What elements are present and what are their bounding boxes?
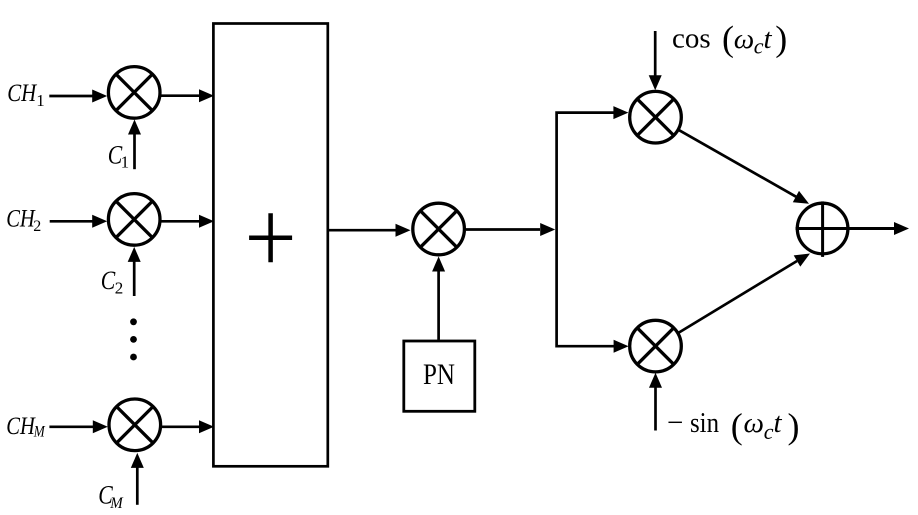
svg-text:2: 2 xyxy=(115,279,124,298)
svg-text:cos: cos xyxy=(672,23,711,55)
svg-text:1: 1 xyxy=(121,152,130,171)
svg-text:2: 2 xyxy=(33,218,41,235)
svg-text:CH: CH xyxy=(7,78,37,107)
svg-text:M: M xyxy=(33,424,46,441)
svg-text:t: t xyxy=(774,407,783,439)
svg-text:C: C xyxy=(101,265,116,295)
svg-text:c: c xyxy=(754,34,764,59)
svg-text:c: c xyxy=(764,419,774,444)
svg-text:1: 1 xyxy=(36,91,45,110)
svg-text:sin: sin xyxy=(690,407,719,439)
svg-text:t: t xyxy=(764,23,773,55)
svg-text:ω: ω xyxy=(734,23,754,55)
svg-text:M: M xyxy=(109,495,124,512)
svg-text:CH: CH xyxy=(6,204,36,233)
svg-text:−: − xyxy=(667,407,683,439)
svg-text:): ) xyxy=(775,19,787,59)
svg-text:ω: ω xyxy=(744,407,764,439)
svg-text:CH: CH xyxy=(6,411,36,440)
svg-text:(: ( xyxy=(722,19,734,59)
svg-text:): ) xyxy=(788,406,800,446)
svg-text:PN: PN xyxy=(423,358,455,391)
svg-text:(: ( xyxy=(731,406,743,446)
